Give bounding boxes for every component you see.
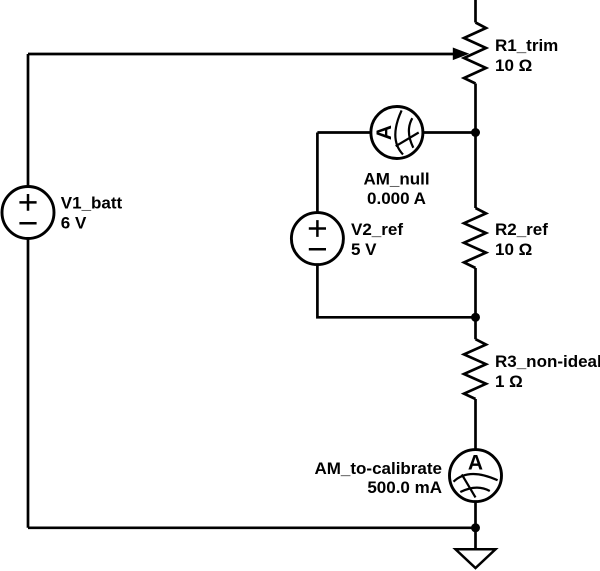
wire: [474, 502, 477, 549]
wire: [27, 239, 30, 528]
node junction: [471, 128, 480, 137]
ammeter AM_null: [371, 107, 423, 159]
svg-text:5 V: 5 V: [351, 240, 377, 259]
voltage source V2_ref: [291, 213, 343, 265]
wire: [317, 265, 475, 318]
resistor R2_ref: [464, 208, 486, 268]
wire: [474, 399, 477, 450]
svg-text:V2_ref: V2_ref: [351, 220, 403, 239]
svg-text:6 V: 6 V: [61, 213, 87, 232]
wire: [474, 84, 477, 209]
resistor R3_non-ideal: [464, 339, 486, 399]
svg-text:10 Ω: 10 Ω: [495, 56, 532, 75]
svg-text:AM_to-calibrate: AM_to-calibrate: [314, 459, 442, 478]
wire: [28, 53, 454, 56]
svg-text:R3_non-ideal: R3_non-ideal: [495, 352, 600, 371]
svg-text:10 Ω: 10 Ω: [495, 240, 532, 259]
wire: [316, 133, 319, 213]
ammeter AM_to-calibrate: [450, 450, 502, 502]
svg-text:500.0 mA: 500.0 mA: [367, 478, 442, 497]
svg-text:0.000 A: 0.000 A: [367, 189, 426, 208]
node junction: [471, 313, 480, 322]
wiper arrow of R1_trim: [453, 48, 470, 61]
resistor R1_trim: [464, 23, 486, 84]
svg-text:A: A: [373, 125, 396, 140]
wire: [474, 0, 477, 23]
wire: [423, 131, 476, 134]
wire: [27, 54, 30, 187]
svg-text:AM_null: AM_null: [363, 169, 429, 188]
node junction: [471, 523, 480, 532]
wire: [317, 131, 371, 134]
svg-text:A: A: [468, 452, 483, 475]
wire: [28, 526, 476, 529]
svg-text:R1_trim: R1_trim: [495, 36, 558, 55]
wire: [474, 268, 477, 339]
svg-text:V1_batt: V1_batt: [61, 193, 123, 212]
svg-text:R2_ref: R2_ref: [495, 220, 548, 239]
ground: [456, 549, 496, 568]
voltage source V1_batt: [2, 187, 54, 239]
svg-text:1 Ω: 1 Ω: [495, 372, 523, 391]
